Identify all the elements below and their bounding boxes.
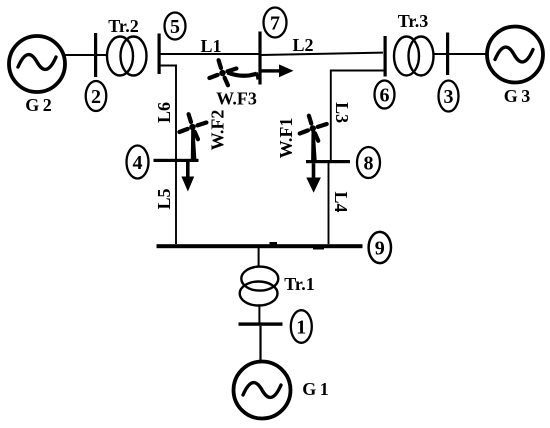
wire bus 9 to Tr.1 (258, 248, 260, 267)
node 9 (369, 232, 391, 263)
svg-text:L4: L4 (331, 191, 351, 212)
load arrow at bus 4 (181, 162, 194, 192)
svg-text:L1: L1 (200, 36, 221, 56)
wire Tr.1 to bus 1 (258, 306, 260, 324)
bus 1 (239, 322, 283, 325)
svg-text:L5: L5 (154, 188, 174, 209)
svg-text:G 2: G 2 (25, 95, 52, 115)
svg-text:Tr.1: Tr.1 (284, 274, 315, 294)
generator G3 (487, 27, 543, 83)
load arrow at bus 8 (306, 163, 321, 193)
svg-text:W.F1: W.F1 (276, 118, 296, 159)
svg-text:L6: L6 (154, 102, 174, 123)
svg-text:4: 4 (133, 152, 143, 174)
svg-text:7: 7 (270, 13, 280, 35)
line L3 (331, 71, 384, 161)
node 3 (439, 81, 459, 112)
node 7 (264, 8, 287, 38)
wind farm W.F2 (179, 114, 206, 160)
node 8 (357, 147, 380, 178)
svg-text:5: 5 (170, 16, 180, 38)
line L6 (160, 66, 176, 161)
wind farm W.F1 (300, 116, 327, 161)
node 1 (291, 310, 312, 343)
generator G1 (234, 362, 291, 419)
line L4 (328, 163, 330, 244)
line L1 (160, 53, 259, 55)
svg-text:Tr.2: Tr.2 (108, 16, 139, 36)
wire Tr.3 to G3 (434, 53, 488, 55)
bus 9 (157, 242, 363, 250)
svg-text:G 1: G 1 (302, 379, 329, 399)
svg-text:W.F3: W.F3 (216, 89, 257, 109)
transformer Tr.3 (394, 37, 434, 76)
bus 4 (154, 159, 199, 162)
node 4 (127, 146, 149, 179)
wire bus 1 to G1 (259, 326, 261, 361)
svg-text:8: 8 (364, 153, 374, 175)
line L5 (175, 160, 177, 244)
svg-text:9: 9 (375, 238, 385, 260)
svg-text:L3: L3 (332, 102, 352, 123)
bus 5 (158, 34, 161, 75)
svg-text:6: 6 (380, 85, 390, 107)
svg-text:2: 2 (91, 86, 101, 108)
bus 8 (306, 160, 350, 163)
wind farm W.F3 (209, 60, 258, 85)
svg-text:3: 3 (444, 86, 454, 108)
svg-text:1: 1 (296, 317, 306, 339)
node 2 (86, 81, 107, 111)
line L2 (261, 53, 383, 55)
node 6 (375, 81, 395, 109)
transformer Tr.1 (240, 267, 279, 306)
bus 2 (94, 33, 97, 77)
wire G2 to Tr.2 (65, 54, 108, 56)
bus 7 (258, 32, 261, 85)
svg-text:Tr.3: Tr.3 (398, 11, 429, 31)
bus 6 (384, 36, 387, 77)
svg-text:W.F2: W.F2 (208, 110, 228, 151)
svg-text:G 3: G 3 (504, 86, 531, 106)
node 5 (165, 13, 186, 40)
arrow W.F3 output (262, 64, 294, 77)
bus 3 (446, 33, 449, 76)
svg-text:L2: L2 (292, 35, 313, 55)
transformer Tr.2 (107, 37, 147, 76)
generator G2 (9, 36, 65, 92)
